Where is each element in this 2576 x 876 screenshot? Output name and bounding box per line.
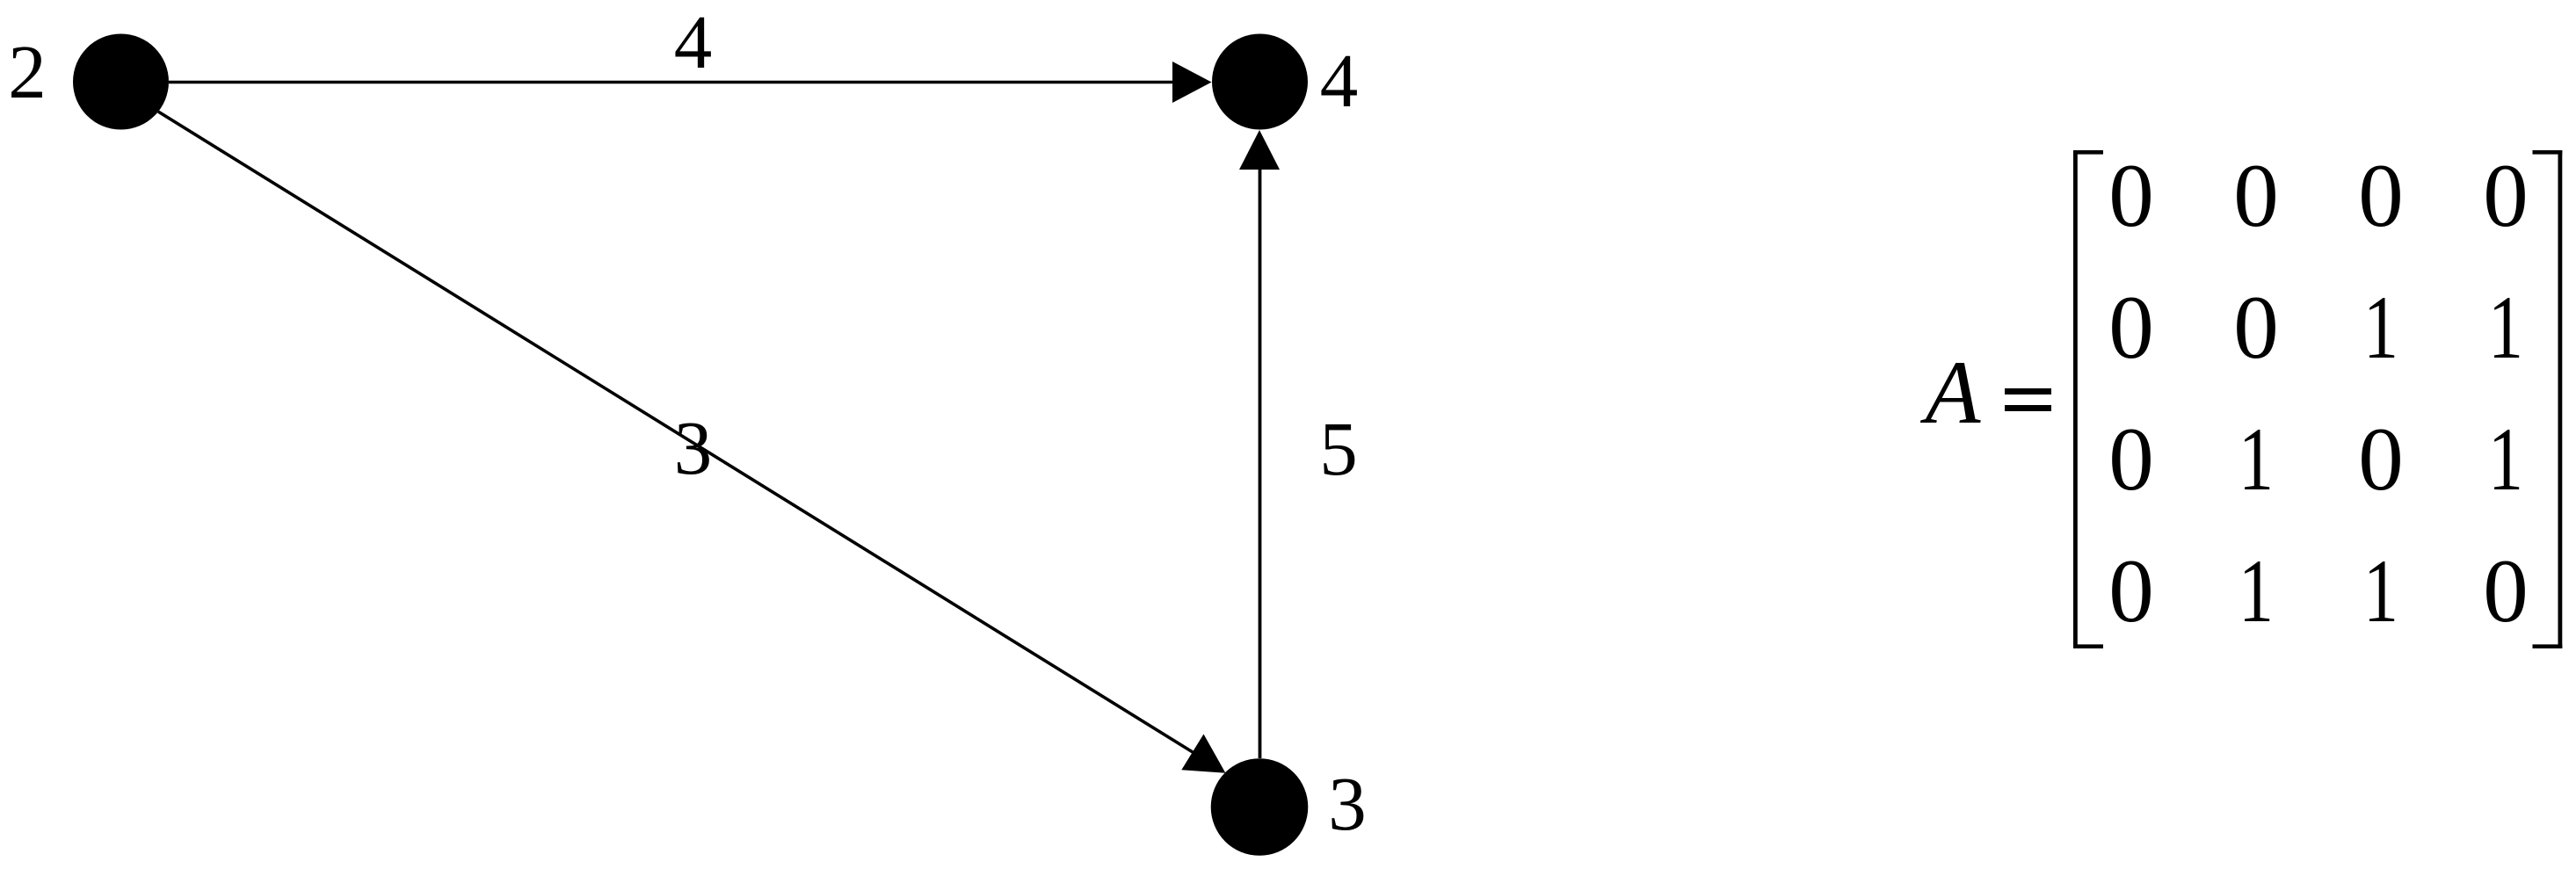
- svg-text:0: 0: [2233, 146, 2279, 246]
- svg-text:3: 3: [1328, 761, 1367, 846]
- edge 3->4 weight label 5: [1319, 406, 1358, 491]
- svg-text:1: 1: [2363, 278, 2398, 378]
- edge 3->4 arrowhead: [1239, 130, 1280, 170]
- svg-text:1: 1: [2239, 409, 2274, 510]
- node 4 label: [1320, 38, 1359, 123]
- svg-text:2: 2: [8, 29, 47, 114]
- svg-text:1: 1: [2239, 541, 2274, 641]
- svg-text:0: 0: [2358, 146, 2404, 246]
- edge 3->4 wire (vertical): [1259, 169, 1262, 758]
- svg-text:4: 4: [674, 0, 713, 84]
- node 3 (bottom vertex): [1211, 758, 1309, 856]
- edge 2->3 arrowhead: [1181, 735, 1225, 773]
- svg-text:1: 1: [2488, 409, 2523, 510]
- edge 2->4 wire (horizontal): [169, 81, 1174, 84]
- svg-text:0: 0: [2483, 541, 2529, 641]
- svg-text:0: 0: [2108, 278, 2154, 378]
- svg-text:1: 1: [2363, 541, 2398, 641]
- matrix left bracket: [2073, 150, 2103, 648]
- matrix row 4: 0 1 1 0: [2108, 541, 2529, 641]
- svg-text:3: 3: [674, 405, 713, 490]
- edge 2->3 weight label 3: [674, 405, 713, 490]
- svg-text:0: 0: [2483, 146, 2529, 246]
- svg-text:A: A: [1920, 343, 1982, 443]
- node 2 label: [8, 29, 47, 114]
- matrix row 1: 0 0 0 0: [2108, 146, 2529, 246]
- svg-text:5: 5: [1319, 406, 1358, 491]
- edge 2->4 weight label 4: [674, 0, 713, 84]
- svg-text:1: 1: [2488, 278, 2523, 378]
- node 4 (top-right vertex): [1212, 34, 1308, 130]
- svg-text:4: 4: [1320, 38, 1359, 123]
- node 2 (top-left vertex): [73, 34, 169, 130]
- node 3 label: [1328, 761, 1367, 846]
- matrix row 2: 0 0 1 1: [2108, 278, 2523, 378]
- equals sign: [2005, 388, 2051, 411]
- matrix right bracket: [2533, 150, 2563, 648]
- matrix name A: [1920, 343, 1982, 443]
- edge 2->3 wire (diagonal): [158, 112, 1193, 752]
- svg-text:0: 0: [2108, 146, 2154, 246]
- svg-text:0: 0: [2108, 409, 2154, 510]
- edge 2->4 arrowhead: [1172, 62, 1212, 103]
- svg-text:0: 0: [2358, 409, 2404, 510]
- svg-text:0: 0: [2108, 541, 2154, 641]
- matrix row 3: 0 1 0 1: [2108, 409, 2523, 510]
- svg-text:0: 0: [2233, 278, 2279, 378]
